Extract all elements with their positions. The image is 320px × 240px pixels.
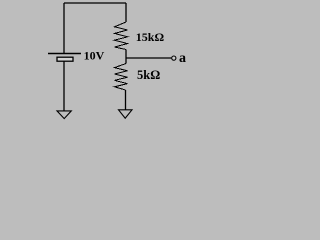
svg-text:5kΩ: 5kΩ	[137, 68, 160, 82]
wire: horizontal from junction to terminal a	[126, 57, 171, 59]
resistor R2 5k zigzag	[115, 64, 128, 91]
battery V1 negative plate (hollow rectangle)	[57, 57, 73, 61]
terminal: open circle node a	[172, 56, 176, 60]
wire: left vertical from top wire down to battery positive plate	[63, 3, 65, 54]
wire: vertical between resistors through node a junction	[125, 50, 127, 64]
wire: right vertical from top wire to 15k resistor	[125, 3, 127, 22]
wire: top horizontal from battery to 15k resistor	[64, 2, 126, 4]
svg-text:a: a	[179, 51, 186, 66]
svg-text:10V: 10V	[84, 49, 105, 63]
ground (right, under 5k resistor)	[119, 110, 133, 118]
wire: left vertical from battery to ground	[63, 61, 65, 110]
svg-text:15kΩ: 15kΩ	[136, 30, 165, 44]
wire: right vertical from 5k resistor to ground	[125, 90, 127, 110]
ground (left, under battery)	[57, 111, 71, 119]
resistor R1 15k zigzag	[115, 22, 128, 50]
battery V1 positive plate (long line)	[48, 53, 81, 55]
